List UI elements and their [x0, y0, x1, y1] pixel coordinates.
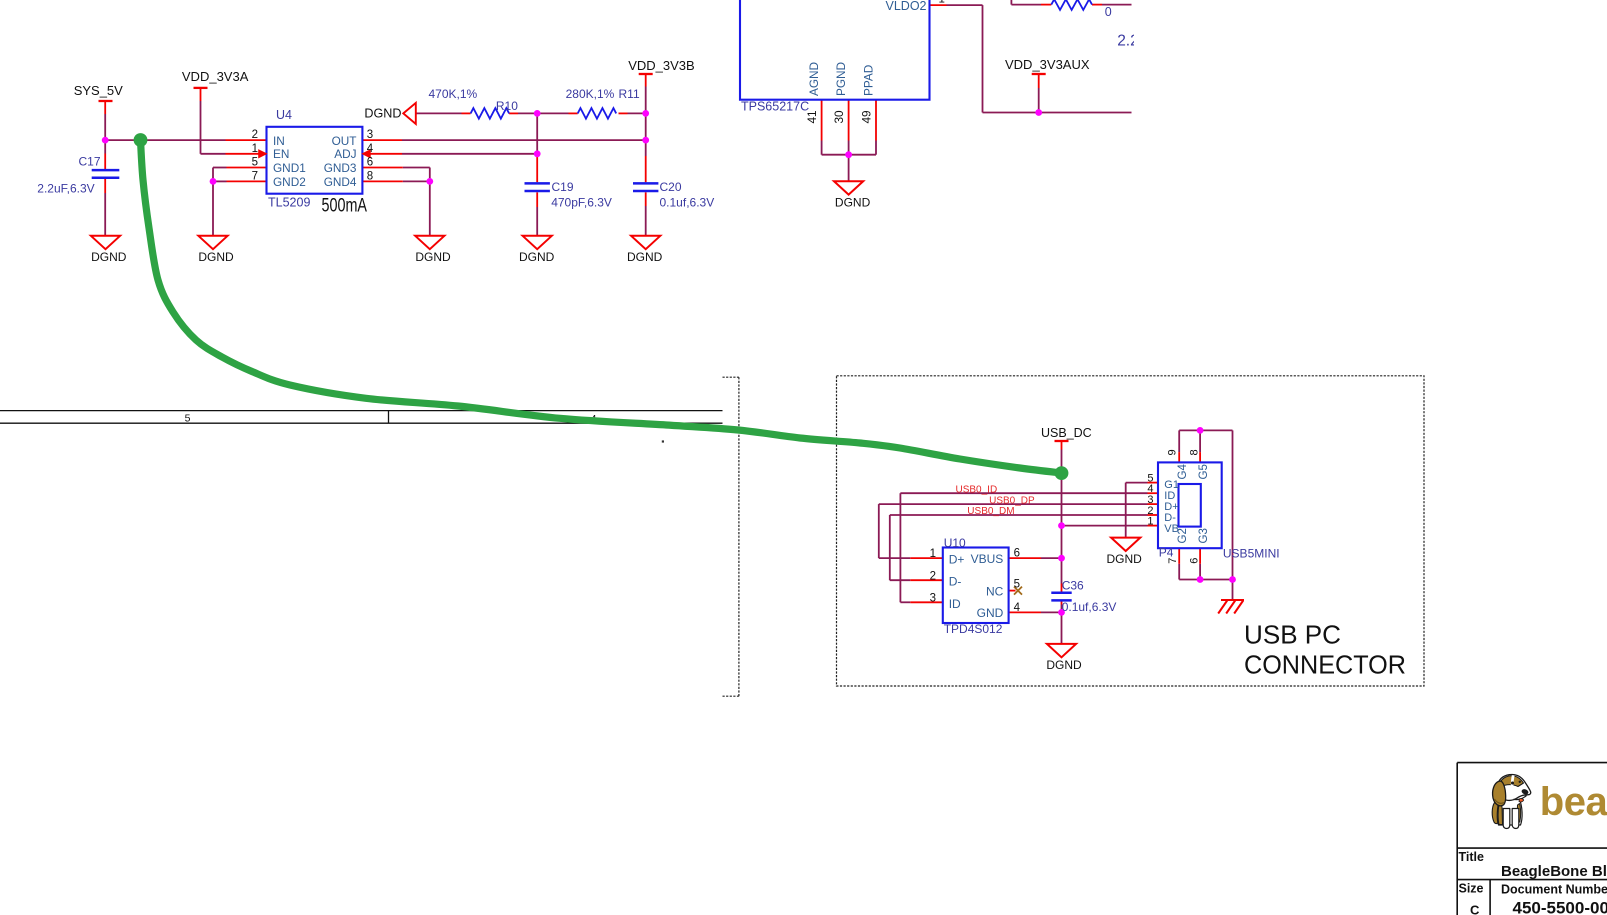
svg-text:AGND: AGND	[807, 62, 821, 96]
svg-text:IN: IN	[273, 134, 285, 148]
svg-text:D-: D-	[949, 575, 962, 589]
svg-text:TPS65217C: TPS65217C	[741, 100, 809, 114]
svg-text:C19: C19	[552, 180, 574, 194]
svg-text:49: 49	[859, 110, 873, 123]
svg-text:DGND: DGND	[1046, 658, 1082, 672]
svg-text:OUT: OUT	[332, 134, 357, 148]
svg-text:VBUS: VBUS	[971, 552, 1004, 566]
svg-text:0: 0	[1105, 5, 1112, 19]
svg-text:VDD_3V3B: VDD_3V3B	[628, 58, 694, 73]
svg-text:8: 8	[367, 171, 373, 183]
svg-text:G3: G3	[1198, 528, 1210, 543]
svg-text:DGND: DGND	[415, 250, 451, 264]
svg-text:TL5209: TL5209	[268, 196, 310, 210]
svg-text:VDD_3V3A: VDD_3V3A	[182, 69, 249, 84]
svg-text:9: 9	[1167, 449, 1179, 455]
svg-text:2.2uF,6.3V: 2.2uF,6.3V	[37, 182, 94, 196]
svg-text:8: 8	[1189, 449, 1201, 455]
svg-text:500mA: 500mA	[322, 194, 368, 216]
svg-text:G5: G5	[1198, 464, 1210, 479]
svg-text:DGND: DGND	[91, 250, 127, 264]
svg-text:C20: C20	[660, 180, 682, 194]
svg-text:U10: U10	[944, 536, 966, 550]
svg-text:USB0_DM: USB0_DM	[967, 506, 1014, 517]
svg-text:DGND: DGND	[519, 250, 555, 264]
svg-text:P4: P4	[1159, 545, 1174, 559]
svg-text:41: 41	[805, 110, 819, 123]
svg-text:6: 6	[1189, 558, 1201, 564]
svg-text:VLDO2: VLDO2	[886, 0, 927, 13]
svg-text:GND: GND	[977, 606, 1004, 620]
svg-text:3: 3	[367, 129, 373, 141]
svg-text:G2: G2	[1177, 528, 1189, 543]
svg-text:USB0_ID: USB0_ID	[956, 484, 998, 495]
svg-text:470K,1%: 470K,1%	[429, 87, 478, 101]
svg-text:0.1uf,6.3V: 0.1uf,6.3V	[660, 196, 715, 210]
svg-text:1: 1	[930, 548, 936, 560]
svg-text:2: 2	[930, 570, 936, 582]
svg-text:USB_DC: USB_DC	[1041, 426, 1092, 440]
svg-text:DGND: DGND	[1107, 552, 1143, 566]
svg-text:R11: R11	[619, 87, 640, 101]
svg-text:USB5MINI: USB5MINI	[1223, 546, 1280, 560]
svg-text:1: 1	[939, 0, 945, 6]
svg-text:C17: C17	[79, 155, 101, 169]
svg-text:SYS_5V: SYS_5V	[74, 83, 123, 98]
svg-text:1: 1	[1147, 516, 1153, 528]
svg-text:CONNECTOR: CONNECTOR	[1244, 649, 1406, 679]
svg-text:7: 7	[252, 171, 258, 183]
svg-text:GND4: GND4	[324, 175, 357, 189]
svg-text:VDD_3V3AUX: VDD_3V3AUX	[1005, 57, 1090, 72]
svg-text:5: 5	[252, 157, 258, 169]
svg-text:DGND: DGND	[198, 250, 234, 264]
svg-text:DGND: DGND	[364, 107, 401, 121]
svg-text:GND3: GND3	[324, 161, 357, 175]
svg-text:PGND: PGND	[834, 62, 848, 96]
svg-text:DGND: DGND	[627, 250, 663, 264]
svg-text:1: 1	[252, 143, 258, 155]
svg-text:C: C	[1470, 902, 1480, 915]
svg-text:DGND: DGND	[835, 195, 871, 209]
svg-text:EN: EN	[273, 147, 289, 161]
svg-text:R10: R10	[496, 99, 518, 113]
svg-text:GND1: GND1	[273, 161, 306, 175]
svg-text:U4: U4	[276, 108, 292, 122]
svg-text:4: 4	[1014, 602, 1021, 614]
svg-text:beagl: beagl	[1540, 780, 1607, 824]
svg-text:G4: G4	[1177, 464, 1189, 480]
svg-text:4: 4	[367, 143, 374, 155]
svg-text:6: 6	[1014, 548, 1020, 560]
svg-text:30: 30	[832, 110, 846, 124]
svg-text:Size: Size	[1459, 882, 1484, 896]
svg-text:450-5500-001: 450-5500-001	[1513, 899, 1607, 915]
svg-text:5: 5	[1014, 579, 1020, 591]
svg-text:NC: NC	[986, 585, 1004, 599]
svg-text:ADJ: ADJ	[334, 147, 356, 161]
svg-text:280K,1%: 280K,1%	[566, 87, 615, 101]
svg-text:Title: Title	[1459, 850, 1485, 864]
svg-text:6: 6	[367, 157, 373, 169]
svg-text:3: 3	[930, 592, 936, 604]
svg-text:2: 2	[252, 129, 258, 141]
svg-text:5: 5	[185, 412, 191, 424]
svg-text:Document Number: Document Number	[1501, 883, 1607, 897]
svg-text:PPAD: PPAD	[862, 65, 876, 96]
svg-text:TPD4S012: TPD4S012	[944, 622, 1003, 636]
svg-text:USB PC: USB PC	[1244, 620, 1341, 650]
svg-text:ID: ID	[949, 597, 961, 611]
svg-text:USB0_DP: USB0_DP	[989, 495, 1035, 506]
svg-text:7: 7	[1167, 558, 1179, 564]
svg-text:D+: D+	[949, 553, 965, 567]
svg-text:GND2: GND2	[273, 175, 306, 189]
svg-text:C36: C36	[1062, 578, 1084, 592]
svg-text:0.1uf,6.3V: 0.1uf,6.3V	[1062, 600, 1117, 614]
svg-text:470pF,6.3V: 470pF,6.3V	[551, 196, 612, 210]
svg-text:BeagleBone Black: BeagleBone Black	[1501, 863, 1607, 880]
